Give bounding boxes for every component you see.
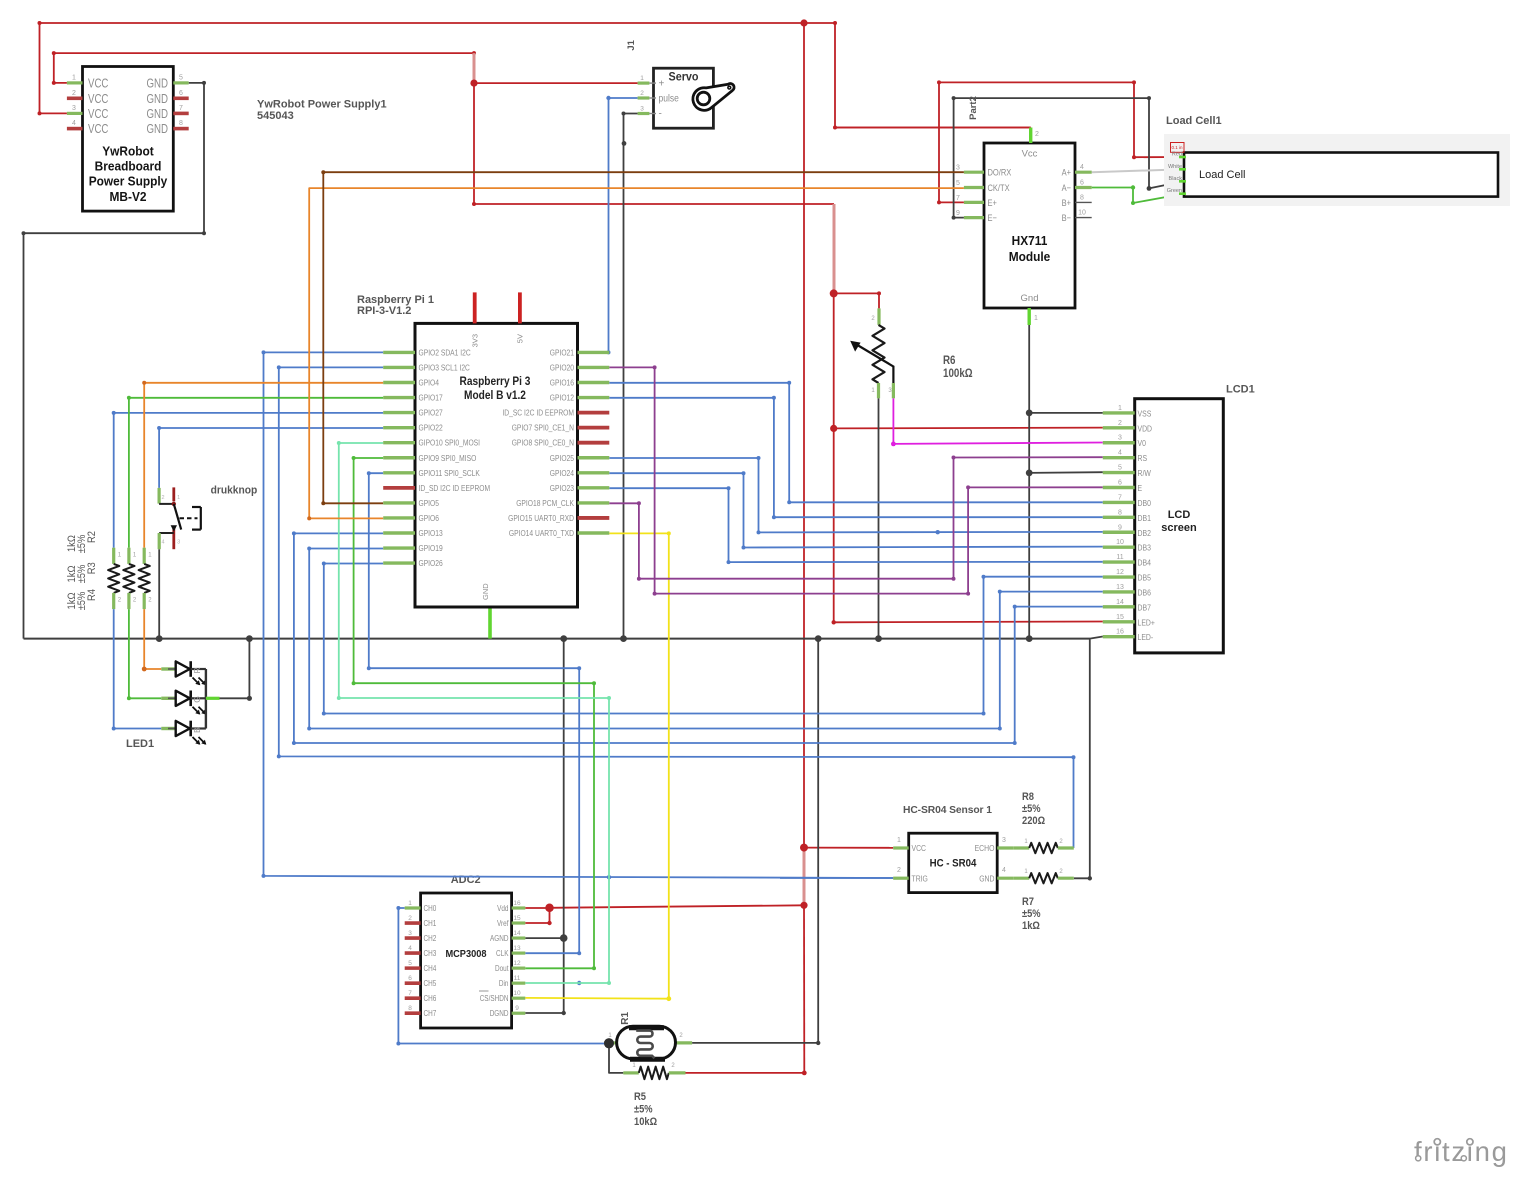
svg-text:1kΩ: 1kΩ	[66, 566, 78, 583]
svg-text:8: 8	[179, 120, 183, 127]
svg-text:±5%: ±5%	[1022, 803, 1041, 815]
svg-text:A−: A−	[1062, 182, 1072, 193]
label R7 1k	[1022, 896, 1041, 932]
svg-text:GPIO4: GPIO4	[419, 378, 440, 388]
svg-text:10: 10	[513, 990, 521, 997]
resistor R2	[108, 548, 122, 609]
svg-text:3: 3	[1118, 435, 1122, 442]
svg-text:9: 9	[1118, 524, 1122, 531]
svg-text:GPIO15 UART0_RXD: GPIO15 UART0_RXD	[508, 513, 574, 523]
svg-text:GPIO11 SPI0_SCLK: GPIO11 SPI0_SCLK	[419, 468, 481, 478]
wire GPIO24 to LCD DB3	[609, 471, 1103, 549]
svg-text:fritzing: fritzing	[1414, 1136, 1509, 1167]
svg-text:VCC: VCC	[88, 106, 108, 121]
svg-text:4: 4	[1002, 867, 1006, 874]
resistor R5	[623, 1063, 685, 1079]
svg-text:Part2: Part2	[968, 96, 979, 120]
svg-text:R: R	[192, 667, 202, 673]
svg-text:CH7: CH7	[424, 1009, 437, 1018]
svg-text:CH1: CH1	[424, 919, 437, 928]
wire GPIO18 to LCD RS	[609, 456, 1103, 581]
svg-text:CLK: CLK	[496, 949, 509, 958]
svg-text:HC-SR04 Sensor 1: HC-SR04 Sensor 1	[903, 805, 992, 816]
wire to load cell Red pin	[1134, 156, 1184, 158]
wire GPIO23 to LCD DB4	[609, 486, 1103, 564]
svg-text:DB0: DB0	[1138, 498, 1152, 508]
svg-text:R6: R6	[943, 355, 956, 367]
svg-text:1: 1	[1118, 405, 1122, 412]
wire LED common to ground bus	[220, 639, 252, 701]
junction LDR gnd at bus	[815, 635, 822, 642]
junction LCD VSS branch	[1026, 410, 1033, 417]
svg-text:Model B v1.2: Model B v1.2	[464, 390, 526, 402]
label R2 1k	[66, 531, 98, 553]
svg-text:Servo: Servo	[669, 70, 699, 84]
wire divider junction to R5 pin1	[609, 1043, 623, 1073]
svg-text:B+: B+	[1062, 197, 1072, 208]
svg-text:B−: B−	[1062, 212, 1072, 223]
wire to R6 pin 2	[834, 291, 881, 308]
svg-text:GPIO25: GPIO25	[550, 453, 574, 463]
junction HC-SR04 VCC branch	[800, 844, 808, 852]
svg-text:DGND: DGND	[490, 1009, 509, 1018]
svg-text:7: 7	[408, 990, 412, 997]
svg-text:9: 9	[956, 210, 960, 217]
svg-text:ECHO: ECHO	[975, 843, 995, 853]
wire GPIO16 to LCD DB0	[609, 381, 1103, 505]
svg-text:6: 6	[408, 975, 412, 982]
ADC MCP3008 ADC2	[405, 893, 526, 1028]
svg-text:DO/RX: DO/RX	[988, 167, 1012, 178]
RGB LED LED1	[161, 661, 219, 745]
svg-text:Dout: Dout	[495, 964, 509, 973]
svg-text:E−: E−	[988, 212, 998, 223]
wire HC-SR04 TRIG stub lead	[780, 877, 893, 879]
wire GPIO9 MISO to MCP Dout	[352, 456, 596, 970]
svg-text:8: 8	[1080, 194, 1084, 201]
wire GPIO11 SCLK to MCP CLK	[367, 471, 582, 985]
svg-text:R/W: R/W	[1138, 468, 1152, 478]
photoresistor R1	[605, 1026, 692, 1059]
svg-text:GPIO13: GPIO13	[419, 528, 443, 538]
svg-text:A+: A+	[1062, 167, 1072, 178]
svg-text:GPIO12: GPIO12	[550, 393, 574, 403]
junction servo + branch	[470, 80, 477, 87]
svg-text:TRIG: TRIG	[912, 874, 929, 884]
junction HX711 gnd at bus	[1026, 635, 1033, 642]
svg-text:VCC: VCC	[912, 843, 927, 853]
junction LDR divider overlay	[604, 1038, 614, 1048]
svg-text:E+: E+	[988, 197, 998, 208]
svg-text:7: 7	[1118, 494, 1122, 501]
svg-text:AGND: AGND	[490, 934, 509, 943]
wire GPIO26 to LCD DB5	[322, 562, 1103, 716]
svg-text:CH6: CH6	[424, 994, 437, 1003]
svg-text:GPIO5: GPIO5	[419, 498, 440, 508]
svg-text:G: G	[192, 696, 202, 703]
raspberry pi U1	[383, 292, 609, 607]
wire servo + pin	[474, 82, 638, 84]
svg-text:GPIO18 PCM_CLK: GPIO18 PCM_CLK	[516, 498, 574, 508]
wire HX711 A- to load cell Green	[1092, 185, 1184, 205]
wire VCC rail vertical x=804	[803, 23, 805, 1073]
svg-text:LED1: LED1	[126, 738, 154, 750]
svg-text:12: 12	[1116, 569, 1124, 576]
svg-text:1: 1	[897, 837, 901, 844]
svg-text:DB3: DB3	[1138, 543, 1152, 553]
svg-text:2: 2	[72, 90, 76, 97]
svg-text:CS/SHDN: CS/SHDN	[480, 994, 509, 1003]
svg-text:GND: GND	[147, 75, 169, 90]
svg-text:1: 1	[1034, 315, 1038, 322]
svg-text:1kΩ: 1kΩ	[66, 535, 78, 552]
svg-text:GPIO27: GPIO27	[419, 408, 443, 418]
label drukknop	[211, 485, 258, 497]
junction MCP Vdd overlay	[545, 904, 553, 912]
svg-text:pulse: pulse	[659, 94, 680, 105]
label R4 1k	[66, 589, 98, 610]
svg-text:-: -	[659, 109, 662, 120]
svg-text:RPI-3-V1.2: RPI-3-V1.2	[357, 305, 411, 317]
svg-text:GPIO23: GPIO23	[550, 483, 574, 493]
svg-text:13: 13	[1116, 584, 1124, 591]
svg-text:GND: GND	[481, 583, 490, 600]
wire GPIO10 MOSI to MCP Din	[337, 441, 611, 985]
svg-text:screen: screen	[1161, 522, 1197, 534]
svg-text:DB2: DB2	[1138, 528, 1152, 538]
label Part2	[968, 96, 979, 120]
label Raspberry Pi 1	[357, 294, 434, 317]
svg-text:1kΩ: 1kΩ	[66, 593, 78, 610]
svg-text:GPIO14 UART0_TXD: GPIO14 UART0_TXD	[509, 528, 574, 538]
svg-text:HC - SR04: HC - SR04	[930, 858, 978, 870]
svg-text:R8: R8	[1022, 791, 1034, 803]
resistor R8	[1013, 839, 1074, 853]
junction MCP AGND	[560, 934, 568, 942]
svg-text:GPIO20: GPIO20	[550, 362, 574, 372]
svg-text:Vref: Vref	[497, 919, 509, 928]
svg-text:1: 1	[640, 75, 644, 82]
svg-text:YwRobot Power Supply1: YwRobot Power Supply1	[257, 99, 387, 111]
load cell	[1164, 134, 1510, 206]
svg-text:GPIO3 SCL1 I2C: GPIO3 SCL1 I2C	[419, 362, 470, 372]
wire GPIO14 to MCP CS	[525, 531, 671, 1001]
svg-text:CH5: CH5	[424, 979, 437, 988]
svg-text:3: 3	[640, 106, 644, 113]
wire to LCD VSS	[1029, 412, 1103, 414]
resistor R4	[139, 548, 153, 609]
svg-text:E: E	[1138, 483, 1143, 493]
svg-text:MB-V2: MB-V2	[110, 189, 147, 204]
svg-text:1: 1	[72, 74, 76, 81]
junction VCC top rail at x=804	[800, 19, 807, 26]
wire GPIO27 to R2 to LED blue	[112, 411, 384, 548]
wire VCC: power supply pin1 to servo branch	[52, 51, 476, 85]
wire GPIO4 to R4	[142, 381, 383, 548]
svg-text:GPIO16: GPIO16	[550, 378, 574, 388]
power supply PS1 YwRobot MB-V2	[67, 67, 189, 212]
svg-text:Load Cell: Load Cell	[1199, 169, 1245, 181]
svg-text:DB4: DB4	[1138, 558, 1152, 568]
label YwRobot Power Supply1	[257, 99, 387, 123]
potentiometer R6	[850, 308, 894, 398]
svg-text:12: 12	[513, 960, 521, 967]
svg-text:4: 4	[408, 945, 412, 952]
svg-text:GND: GND	[147, 121, 169, 136]
svg-text:4: 4	[72, 120, 76, 127]
wire LDR pin2 to ground bus	[692, 639, 820, 1046]
svg-text:R1: R1	[620, 1011, 631, 1024]
svg-text:VDD: VDD	[1138, 423, 1153, 433]
svg-text:8: 8	[408, 1005, 412, 1012]
svg-text:J1: J1	[626, 39, 637, 50]
svg-text:2: 2	[897, 867, 901, 874]
svg-text:4: 4	[1080, 164, 1084, 171]
wire servo - to ground bus	[622, 112, 638, 639]
svg-text:2: 2	[1035, 131, 1039, 138]
svg-text:+: +	[659, 79, 665, 90]
svg-text:GPIO2 SDA1 I2C: GPIO2 SDA1 I2C	[419, 347, 471, 357]
HX711 module Part2	[956, 128, 1092, 326]
wire R2 bottom to LED B	[112, 609, 162, 730]
svg-text:15: 15	[1116, 614, 1124, 621]
wire GPIO20 to LCD E	[609, 365, 1103, 595]
svg-text:CH3: CH3	[424, 949, 437, 958]
svg-text:RS: RS	[1138, 453, 1148, 463]
junction R6 gnd at bus	[875, 635, 882, 642]
svg-text:MCP3008: MCP3008	[445, 948, 486, 960]
svg-text:Din: Din	[499, 979, 509, 988]
svg-text:10: 10	[1116, 539, 1124, 546]
svg-text:White: White	[1168, 164, 1182, 170]
svg-text:14: 14	[513, 930, 521, 937]
ground bus horizontal	[24, 638, 1090, 640]
svg-text:V0: V0	[1138, 438, 1147, 448]
svg-text:Gnd: Gnd	[1021, 293, 1039, 304]
svg-text:2: 2	[408, 915, 412, 922]
svg-text:4: 4	[1118, 450, 1122, 457]
svg-text:GND: GND	[979, 874, 994, 884]
svg-text:Green: Green	[1167, 188, 1182, 194]
label R5 10k	[634, 1091, 657, 1128]
svg-text:CH0: CH0	[424, 904, 437, 913]
wire HX711 Vcc red	[835, 127, 1031, 129]
svg-text:7: 7	[956, 195, 960, 202]
svg-text:2: 2	[1118, 420, 1122, 427]
svg-text:4: 4	[161, 540, 164, 546]
svg-text:3: 3	[408, 930, 412, 937]
svg-text:15: 15	[513, 915, 521, 922]
svg-text:9: 9	[515, 1005, 519, 1012]
fritzing watermark	[1414, 1136, 1509, 1167]
wire R6 pin1 to ground bus	[878, 398, 880, 638]
svg-text:GPIO22: GPIO22	[419, 423, 443, 433]
svg-text:GPIO24: GPIO24	[550, 468, 574, 478]
wire black rail bus to DGND	[563, 639, 565, 1013]
wire VCC drop to servo + / 5V rail	[472, 53, 834, 206]
svg-text:1: 1	[177, 495, 180, 501]
svg-text:±5%: ±5%	[1022, 908, 1041, 920]
servo J1	[638, 68, 735, 128]
label ADC2	[451, 874, 481, 886]
wire GPIO25 to LCD DB2	[609, 456, 1103, 534]
wire to load cell Black pin	[1149, 181, 1184, 188]
wire GPIO19 to LCD DB6	[307, 547, 1103, 731]
wire MCP DGND	[525, 1011, 566, 1015]
svg-text:LCD: LCD	[1168, 509, 1191, 521]
wire to LCD VDD	[834, 427, 1103, 430]
wire GPIO13 to LCD DB7	[292, 531, 1103, 745]
svg-text:VCC: VCC	[88, 121, 108, 136]
svg-text:5V: 5V	[516, 334, 525, 343]
junction MCP Vdd branch	[800, 902, 807, 909]
label LED1	[126, 738, 154, 750]
junction button ground	[156, 635, 163, 642]
wire GPIO12 to LCD DB1	[609, 396, 1103, 519]
label HC-SR04 Sensor 1	[903, 805, 992, 816]
svg-text:R5: R5	[634, 1091, 646, 1103]
wire R3 bottom to LED G	[127, 609, 161, 700]
svg-text:5: 5	[179, 74, 183, 81]
svg-text:1kΩ: 1kΩ	[1022, 920, 1040, 932]
svg-text:R7: R7	[1022, 896, 1034, 908]
svg-text:220Ω: 220Ω	[1022, 815, 1045, 827]
svg-text:LED-: LED-	[1138, 632, 1154, 642]
svg-text:Vcc: Vcc	[1022, 149, 1038, 160]
svg-text:GND: GND	[147, 106, 169, 121]
svg-text:10kΩ: 10kΩ	[634, 1116, 657, 1128]
label Load Cell1	[1166, 115, 1222, 127]
svg-text:GPIO9 SPI0_MISO: GPIO9 SPI0_MISO	[419, 453, 477, 463]
svg-text:6: 6	[1118, 480, 1122, 487]
svg-text:DB5: DB5	[1138, 573, 1152, 583]
svg-text:16: 16	[1116, 629, 1124, 636]
junction LCD R/W branch	[1026, 470, 1033, 477]
svg-text:5: 5	[956, 180, 960, 187]
svg-text:7: 7	[179, 105, 183, 112]
label J1	[626, 39, 637, 50]
svg-text:VCC: VCC	[88, 91, 108, 106]
wire VCC net: power supply pin3 to top rail	[38, 21, 1031, 130]
resistor R7	[1024, 869, 1073, 883]
svg-text:DB6: DB6	[1138, 587, 1152, 597]
svg-text:LCD1: LCD1	[1226, 384, 1255, 396]
wire R7 to HC-SR04 GND part	[1013, 877, 1029, 880]
svg-text:8: 8	[1118, 509, 1122, 516]
svg-text:GPIO6: GPIO6	[419, 513, 440, 523]
svg-text:3V3: 3V3	[471, 334, 480, 347]
junction servo ground	[620, 635, 627, 642]
wire 5V rail vertical x=834	[832, 204, 835, 622]
wire HX711 E+ net	[937, 80, 1136, 204]
svg-text:5: 5	[1118, 465, 1122, 472]
wire R5 pin2 to rail	[686, 1071, 807, 1076]
svg-text:YwRobot: YwRobot	[102, 144, 154, 159]
svg-text:drukknop: drukknop	[211, 485, 258, 497]
wire GPIO3 to R8 to ECHO	[277, 365, 1076, 848]
svg-text:Red: Red	[1172, 152, 1182, 158]
svg-text:GPIO21: GPIO21	[550, 347, 574, 357]
wire GPIO17 to R3	[127, 396, 383, 548]
node LDR divider junction	[604, 1038, 614, 1048]
svg-text:LED+: LED+	[1138, 617, 1155, 627]
svg-text:DB1: DB1	[1138, 513, 1152, 523]
LCD screen LCD1	[1103, 399, 1223, 653]
svg-text:14: 14	[1116, 599, 1124, 606]
wire GPIO22 to button pin2	[157, 426, 383, 488]
svg-text:Breadboard: Breadboard	[95, 159, 162, 174]
svg-text:DB7: DB7	[1138, 602, 1152, 612]
wire R4 bottom to LED R	[142, 609, 162, 671]
svg-text:6: 6	[1080, 180, 1084, 187]
svg-text:GIPO10 SPI0_MOSI: GIPO10 SPI0_MOSI	[419, 438, 481, 448]
svg-text:Load Cell1: Load Cell1	[1166, 115, 1222, 127]
svg-text:GPIO26: GPIO26	[419, 558, 443, 568]
label R3 1k	[66, 562, 98, 583]
svg-text:HX711: HX711	[1012, 233, 1048, 248]
wire HX711 A+ to load cell White	[1092, 169, 1184, 172]
svg-text:6: 6	[179, 90, 183, 97]
label R1	[620, 1011, 631, 1024]
ultrasonic sensor HC-SR04	[893, 833, 1013, 892]
junction LED common at bus	[246, 635, 253, 642]
svg-text:10: 10	[1078, 210, 1086, 217]
svg-text:11: 11	[1116, 554, 1123, 561]
svg-text:GPIO7 SPI0_CE1_N: GPIO7 SPI0_CE1_N	[512, 423, 574, 433]
wire HX711 Gnd down to bus	[1028, 325, 1030, 639]
svg-text:GND: GND	[147, 91, 169, 106]
resistor R3	[123, 548, 137, 609]
wire servo pulse to GPIO21	[606, 96, 637, 355]
svg-text:545043: 545043	[257, 110, 294, 122]
wire RPi GND stub	[488, 607, 492, 639]
svg-text:2: 2	[640, 90, 644, 97]
svg-text:16: 16	[513, 900, 521, 907]
wire button pin4 to ground bus	[158, 549, 160, 638]
wire MCP CH0 to divider	[396, 906, 609, 1046]
wire power supply GND pin5 down to ground bus	[22, 81, 207, 639]
svg-text:VSS: VSS	[1138, 408, 1152, 418]
svg-text:±5%: ±5%	[634, 1104, 653, 1116]
junction R6 pin2 branch	[830, 289, 838, 297]
svg-text:Vdd: Vdd	[497, 904, 508, 913]
wire to LCD LED+	[832, 620, 1103, 624]
svg-text:1: 1	[408, 900, 412, 907]
svg-text:CH4: CH4	[424, 964, 437, 973]
svg-text:3: 3	[1002, 837, 1006, 844]
label LCD1	[1226, 384, 1255, 396]
svg-text:GPIO8 SPI0_CE0_N: GPIO8 SPI0_CE0_N	[512, 438, 574, 448]
svg-text:11: 11	[514, 975, 521, 982]
junction LCD VDD branch	[830, 425, 837, 432]
wire GPIO6 to HX711 CK/TX	[307, 188, 964, 520]
svg-text:ID_SC I2C ID EEPROM: ID_SC I2C ID EEPROM	[502, 408, 574, 418]
wire MCP Vdd to rail	[550, 905, 805, 908]
wire to LCD R/W	[1029, 471, 1103, 474]
svg-text:CK/TX: CK/TX	[988, 182, 1011, 193]
svg-text:3: 3	[956, 165, 960, 172]
svg-text:13: 13	[513, 945, 521, 952]
svg-text:0.1 in: 0.1 in	[1171, 145, 1183, 150]
svg-text:B: B	[192, 727, 202, 733]
pushbutton drukknop	[159, 487, 201, 549]
junction black rail at bus	[560, 635, 567, 642]
label R6 100k	[943, 355, 973, 380]
svg-text:ID_SD I2C ID EEPROM: ID_SD I2C ID EEPROM	[419, 483, 491, 493]
junction MCP Vdd	[545, 904, 553, 912]
wire LCD LED- down to R7	[1074, 637, 1103, 881]
svg-text:GPIO19: GPIO19	[419, 543, 443, 553]
